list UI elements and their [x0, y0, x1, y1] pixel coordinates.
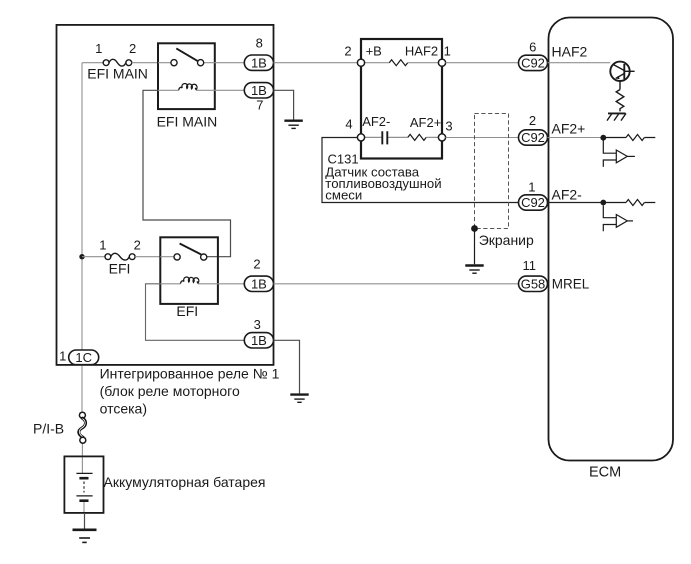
wire P/I-B squiggle	[79, 418, 86, 437]
wire: sensor pin1 HAF2 to C92-6	[446, 62, 519, 64]
svg-text:1C: 1C	[75, 350, 92, 365]
connector 1B pin 8	[244, 55, 273, 70]
svg-text:7: 7	[256, 98, 263, 113]
svg-text:HAF2: HAF2	[552, 44, 588, 60]
svg-text:EFI: EFI	[176, 303, 198, 319]
relay EFI switch	[174, 244, 207, 261]
battery box	[64, 456, 103, 513]
pin circle sensor pin2	[357, 59, 364, 66]
fuse EFI	[105, 253, 135, 260]
connector P/I-B top circle	[79, 412, 85, 418]
wire: 1B-8 to sensor +B	[274, 62, 358, 64]
wire: fuse EFI to relay box	[135, 256, 160, 258]
node dot AF2-	[600, 200, 606, 206]
ground G2	[290, 395, 308, 403]
wire: ECM AF2- internal	[548, 202, 602, 204]
relay EFI coil	[180, 277, 199, 284]
svg-text:AF2-: AF2-	[362, 114, 390, 129]
svg-text:6: 6	[529, 40, 536, 55]
wire: sensor pin3 AF2+ to C92-2	[446, 137, 519, 139]
connector G58 pin 11	[519, 276, 548, 291]
resistor R1 (sensor heater)	[389, 60, 407, 66]
ground G1	[284, 121, 302, 129]
wire: coil leads	[158, 89, 244, 91]
wire: EFI MAIN coil to EFI relay switch (dark path)	[143, 90, 231, 256]
svg-text:3: 3	[445, 119, 452, 134]
svg-text:HAF2: HAF2	[405, 44, 438, 59]
connector 1B pin 7	[244, 83, 273, 98]
connector 1B pin 3	[244, 333, 273, 348]
svg-text:1B: 1B	[251, 333, 267, 348]
svg-text:G58: G58	[521, 277, 546, 292]
wire: battery to ground	[84, 513, 86, 529]
svg-text:8: 8	[256, 35, 263, 50]
ground G3 (shield)	[465, 266, 483, 274]
connector C92 pin 6	[519, 55, 548, 70]
svg-text:3: 3	[254, 317, 261, 332]
svg-text:2: 2	[129, 41, 136, 56]
wire: ECM AF2+ internal	[548, 137, 602, 139]
svg-text:11: 11	[523, 258, 537, 273]
wire: fuse to relay box	[132, 62, 158, 64]
resistor R3 (transistor emitter)	[616, 90, 624, 112]
svg-text:+B: +B	[366, 44, 382, 59]
wire: row +B from bus to fuse EFI MAIN	[82, 62, 103, 64]
capacitor C1	[382, 131, 387, 144]
transistor Q1	[610, 62, 634, 90]
wire: MREL row 1B-2 to G58	[274, 283, 519, 285]
relay EFI MAIN switch	[171, 48, 204, 65]
svg-text:P/I-B: P/I-B	[33, 421, 64, 437]
connector 1C	[69, 350, 99, 365]
wire: bus to fuse EFI	[82, 256, 105, 258]
relay EFI MAIN coil	[179, 84, 198, 91]
comparator A1 (AF2+)	[603, 141, 635, 167]
relay block box (Integrated relay No.1)	[57, 25, 274, 365]
svg-text:Интегрированное реле № 1: Интегрированное реле № 1	[100, 365, 280, 381]
svg-text:1: 1	[95, 41, 102, 56]
ECM box U1	[549, 18, 674, 461]
svg-text:C92: C92	[521, 56, 545, 71]
pin circle sensor pin3	[438, 134, 445, 141]
svg-text:2: 2	[344, 44, 351, 59]
svg-text:Экранир: Экранир	[479, 232, 534, 248]
svg-text:(блок реле моторного: (блок реле моторного	[100, 383, 240, 399]
connector C92 pin 1	[519, 195, 548, 210]
wire: dot to resistor R5	[606, 202, 655, 204]
svg-text:AF2+: AF2+	[410, 115, 441, 130]
svg-text:C92: C92	[521, 195, 545, 210]
wire: EFI coil leads	[160, 283, 244, 285]
label block: Integrated relay No.1	[100, 365, 280, 416]
wire: relay internal to switch	[158, 62, 244, 64]
svg-text:4: 4	[345, 116, 352, 131]
svg-text:1B: 1B	[251, 55, 267, 70]
svg-text:1: 1	[59, 348, 66, 363]
svg-text:Аккумуляторная батарея: Аккумуляторная батарея	[104, 474, 266, 490]
fuse EFI MAIN	[103, 59, 132, 66]
relay EFI MAIN box	[158, 43, 215, 109]
resistor R2 (sensor)	[408, 134, 426, 140]
wire: EFI coil left to 1B-3	[146, 284, 245, 341]
sensor box C131	[361, 39, 442, 159]
connector P/I-B bottom circle	[80, 437, 86, 443]
svg-text:2: 2	[529, 113, 536, 128]
battery plates	[76, 473, 92, 500]
svg-text:смеси: смеси	[325, 188, 362, 203]
svg-text:AF2-: AF2-	[552, 186, 583, 202]
resistor R5 (AF2-)	[626, 200, 644, 206]
svg-text:1: 1	[528, 180, 535, 195]
svg-text:1B: 1B	[251, 83, 267, 98]
shield dashed box	[475, 114, 509, 229]
svg-text:отсека): отсека)	[100, 400, 147, 416]
wire: battery bus vertical	[82, 63, 84, 513]
svg-text:ECM: ECM	[589, 464, 621, 480]
svg-text:C92: C92	[521, 130, 545, 145]
node: bus junction at EFI fuse row	[79, 254, 84, 259]
svg-text:AF2+: AF2+	[552, 121, 586, 137]
chassis ground (transistor)	[607, 113, 626, 120]
wire: shield to ground	[474, 229, 476, 265]
svg-text:EFI: EFI	[109, 261, 131, 277]
wire: dot to resistor R4	[606, 137, 655, 139]
svg-text:EFI MAIN: EFI MAIN	[157, 113, 218, 129]
wire: relay EFI internal	[160, 256, 174, 258]
wire: 1B-7 to ground	[274, 90, 294, 119]
connector C92 pin 2	[519, 130, 548, 145]
svg-text:2: 2	[134, 237, 141, 252]
node dot AF2+	[600, 135, 606, 141]
svg-text:1: 1	[99, 237, 106, 252]
sensor internal row2 wires	[365, 136, 439, 138]
svg-text:1B: 1B	[251, 277, 267, 292]
pin circle sensor pin4	[357, 134, 364, 141]
svg-text:MREL: MREL	[552, 276, 590, 291]
relay EFI box	[160, 237, 218, 304]
pin circle sensor pin1	[438, 59, 445, 66]
svg-text:EFI MAIN: EFI MAIN	[87, 66, 148, 82]
wire: ECM HAF2 to transistor	[548, 62, 611, 64]
ground G4 (battery)	[73, 530, 97, 543]
svg-text:1: 1	[444, 44, 451, 59]
label block C131 sensor	[325, 151, 441, 202]
resistor R4 (AF2+)	[626, 135, 644, 141]
connector 1B pin 2	[244, 276, 273, 291]
wire: 1B-3 to ground	[274, 340, 300, 393]
node shield dot	[471, 225, 478, 232]
comparator A2 (AF2-)	[603, 206, 633, 232]
sensor internal row1 wires	[365, 62, 439, 64]
svg-text:2: 2	[253, 257, 260, 272]
wire: sensor pin4 AF2- to C92-1	[322, 138, 519, 203]
